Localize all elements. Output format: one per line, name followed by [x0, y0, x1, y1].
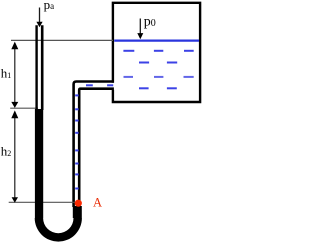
svg-text:h1: h1 [1, 65, 12, 80]
svg-text:p0: p0 [144, 14, 156, 29]
svg-text:pa: pa [44, 0, 55, 12]
svg-text:A: A [93, 196, 102, 210]
svg-text:h2: h2 [1, 144, 12, 159]
